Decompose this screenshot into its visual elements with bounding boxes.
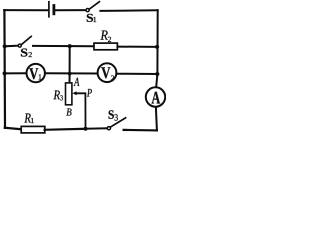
label wiper P: [87, 89, 92, 97]
switch S2 pivot circle: [18, 44, 21, 47]
middle vertical wire node to R3: [69, 46, 71, 83]
resistor R1 box: [21, 126, 45, 132]
voltmeter V1 circle: [27, 64, 45, 82]
label node B: [66, 109, 71, 116]
wire R1 to P junction: [45, 129, 86, 130]
label R3: [53, 91, 62, 101]
wire top-left corner to battery: [4, 9, 48, 11]
bottom wire left corner to R1: [5, 128, 22, 130]
voltmeter V2 label: [101, 67, 114, 80]
voltmeter V2 circle: [98, 63, 117, 82]
ammeter A circle: [146, 87, 165, 106]
junction dot middle node V1V2: [68, 72, 72, 76]
label S1: [87, 14, 96, 22]
rheostat R3 box: [66, 83, 72, 105]
wire V2 to right vertical: [117, 73, 157, 75]
resistor R2 box: [94, 43, 117, 50]
left vertical wire: [3, 10, 6, 128]
switch S3 lever: [110, 118, 125, 127]
junction dot S2 branch left: [3, 44, 7, 48]
wire S2 branch from left vertical: [5, 45, 19, 48]
junction dot wiper bottom: [84, 127, 88, 131]
junction dot middle node top: [68, 44, 72, 48]
wire R2 to right vertical: [117, 46, 156, 48]
label node A: [74, 78, 80, 86]
R3 wiper arrowhead: [72, 91, 76, 95]
junction dot V2 right: [155, 72, 159, 76]
wire battery to S1: [55, 9, 85, 11]
R3 wiper arm: [76, 93, 86, 128]
label R1: [24, 113, 33, 123]
wire V1 to middle node: [45, 72, 97, 74]
wire ammeter to bottom-right corner: [156, 107, 157, 130]
voltmeter V1 label: [29, 68, 41, 79]
label S2: [21, 49, 32, 58]
switch S3 pivot circle: [107, 127, 110, 130]
wire S3 to bottom-right corner: [124, 129, 157, 132]
junction dot R2 right: [155, 45, 159, 49]
right vertical wire: [156, 10, 158, 87]
label S3: [109, 110, 118, 120]
switch S1 pivot circle: [86, 9, 89, 12]
switch S1 lever: [89, 2, 99, 10]
junction dot V1 branch left: [3, 71, 7, 75]
label R2: [100, 31, 111, 42]
wire S2 to R2: [33, 45, 94, 47]
wire P junction to S3: [86, 127, 108, 129]
switch S2 lever: [21, 36, 31, 44]
battery long plate: [48, 2, 50, 17]
wire S1 to top-right corner: [100, 9, 157, 12]
battery short plate: [53, 6, 56, 14]
ammeter A label: [152, 92, 161, 104]
wire left vertical to voltmeter V1: [5, 72, 27, 74]
